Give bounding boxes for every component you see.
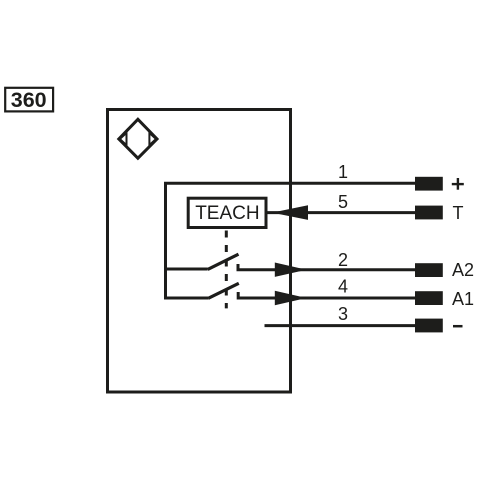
terminal 3 [415,319,443,333]
wire 1 (top rail to terminal 1) [164,182,415,185]
net label minus [453,325,463,328]
arrow out on wire 4 [275,291,307,305]
switch S1 left lead [164,268,208,271]
switch S2 blade [208,283,239,298]
arrow into TEACH [272,205,308,220]
switch S1 blade [208,254,239,269]
svg-text:A2: A2 [452,260,474,280]
svg-text:A1: A1 [452,289,474,309]
svg-text:4: 4 [338,277,348,297]
switch S2 fixed contact and wire 4 [238,292,415,298]
dashed control link [225,231,228,309]
switch S1 fixed contact and wire 2 [238,264,415,270]
wire 5 (terminal 5 to TEACH) [267,211,415,214]
wire inner left vertical [164,183,167,298]
svg-text:360: 360 [11,88,47,112]
figure label box 360 [5,88,53,112]
sensor symbol right triangle [149,133,156,145]
net label + [452,178,464,190]
svg-text:T: T [453,203,464,223]
svg-text:3: 3 [338,304,348,324]
terminal 5 [415,206,443,220]
arrow out on wire 2 [275,263,307,277]
svg-text:2: 2 [338,250,348,270]
terminal 1 [415,177,443,191]
sensor symbol left triangle [120,133,127,145]
wire 3 (common to terminal 3) [265,324,416,327]
terminal 4 [415,291,443,305]
switch S2 left lead [164,297,208,300]
sensor symbol diamond [119,119,157,158]
TEACH block U1 [188,198,266,227]
terminal 2 [415,263,443,277]
svg-text:5: 5 [338,192,348,212]
svg-text:1: 1 [338,162,348,182]
sensor body outline [108,110,291,393]
svg-text:TEACH: TEACH [195,203,259,224]
